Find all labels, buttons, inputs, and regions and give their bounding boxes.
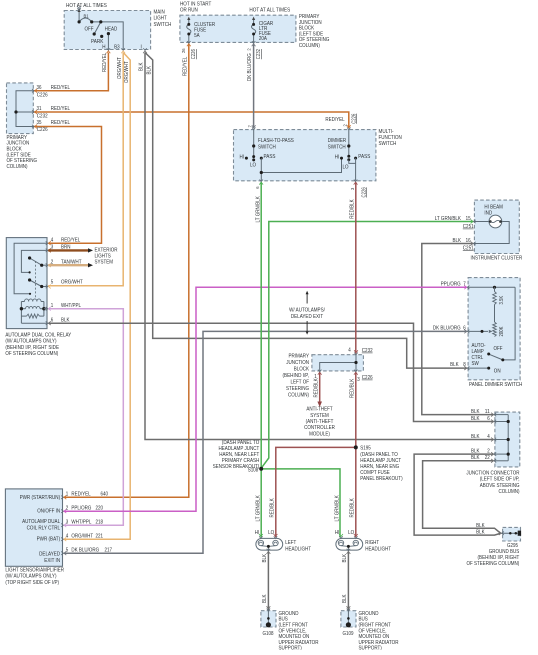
- svg-text:LIGHT SENSOR/AMPLIFIER: LIGHT SENSOR/AMPLIFIER: [5, 567, 64, 573]
- svg-text:WHT/PPL: WHT/PPL: [61, 303, 81, 309]
- svg-text:ORG/WHT: ORG/WHT: [71, 533, 93, 539]
- svg-text:7: 7: [248, 125, 254, 128]
- svg-text:SUPPORT): SUPPORT): [279, 646, 302, 650]
- svg-text:BLK: BLK: [476, 523, 485, 529]
- svg-text:ON/OFF IN: ON/OFF IN: [37, 509, 60, 515]
- svg-text:15: 15: [466, 216, 471, 222]
- svg-text:CONTROLLER: CONTROLLER: [304, 425, 335, 431]
- svg-text:C226: C226: [37, 92, 48, 98]
- svg-text:DK BLU/ORG: DK BLU/ORG: [71, 547, 99, 553]
- svg-text:RED/YEL: RED/YEL: [182, 57, 188, 76]
- svg-text:C226: C226: [37, 127, 48, 133]
- svg-text:PWR (START/RUN): PWR (START/RUN): [20, 495, 61, 501]
- svg-text:AUTOLAMP DUAL COIL RELAY: AUTOLAMP DUAL COIL RELAY: [5, 332, 71, 338]
- svg-text:OFF: OFF: [85, 27, 95, 33]
- svg-text:(DASH PANEL TO: (DASH PANEL TO: [360, 452, 398, 458]
- svg-text:DK BLU/ORG: DK BLU/ORG: [433, 326, 461, 332]
- svg-text:H: H: [102, 45, 105, 51]
- svg-text:ORG/WHT: ORG/WHT: [117, 57, 123, 79]
- svg-text:COLUMN): COLUMN): [299, 43, 320, 49]
- svg-text:HARN, NEAR LEFT: HARN, NEAR LEFT: [219, 452, 260, 458]
- svg-text:BLK: BLK: [471, 448, 480, 454]
- svg-text:RED/YEL: RED/YEL: [325, 117, 344, 123]
- svg-text:G108: G108: [263, 631, 274, 637]
- svg-text:BLK: BLK: [476, 530, 485, 536]
- svg-text:BLK: BLK: [342, 594, 348, 603]
- svg-text:BLK: BLK: [262, 554, 268, 563]
- svg-text:26: 26: [181, 48, 187, 53]
- svg-text:FLASH-TO-PASS: FLASH-TO-PASS: [258, 138, 294, 144]
- svg-text:(TOP RIGHT SIDE OF I/P): (TOP RIGHT SIDE OF I/P): [5, 580, 59, 586]
- svg-text:LEFT: LEFT: [285, 540, 297, 546]
- svg-text:220: 220: [96, 505, 104, 511]
- svg-text:EXTERIOR: EXTERIOR: [95, 247, 118, 253]
- svg-text:6: 6: [255, 186, 261, 189]
- svg-text:PASS: PASS: [358, 154, 370, 160]
- svg-text:4: 4: [66, 533, 69, 539]
- svg-text:B3: B3: [114, 45, 120, 51]
- svg-text:ORG/WHT: ORG/WHT: [124, 61, 130, 83]
- svg-text:RED/BLK: RED/BLK: [350, 498, 356, 518]
- svg-text:W/ AUTOLAMPS/: W/ AUTOLAMPS/: [289, 308, 325, 314]
- svg-text:RED/YEL: RED/YEL: [51, 120, 70, 126]
- svg-text:COLUMN): COLUMN): [499, 489, 520, 495]
- svg-text:PRIMARY CRASH: PRIMARY CRASH: [222, 458, 260, 464]
- svg-text:INSTRUMENT CLUSTER: INSTRUMENT CLUSTER: [471, 256, 523, 262]
- svg-text:STEERING: STEERING: [286, 386, 309, 392]
- svg-text:AUTOLAMP DUAL: AUTOLAMP DUAL: [22, 519, 60, 525]
- svg-text:I: I: [141, 45, 142, 51]
- svg-text:(W/ AUTOLAMPS ONLY): (W/ AUTOLAMPS ONLY): [5, 574, 56, 580]
- svg-text:HI BEAM: HI BEAM: [484, 204, 503, 210]
- svg-text:HARN, NEAR ENG: HARN, NEAR ENG: [360, 464, 399, 470]
- svg-text:FUNCTION: FUNCTION: [379, 135, 402, 141]
- svg-text:JUNCTION: JUNCTION: [286, 360, 309, 366]
- svg-text:DK BLU/ORG: DK BLU/ORG: [247, 53, 253, 81]
- svg-text:5: 5: [66, 547, 69, 553]
- svg-text:RED/YEL: RED/YEL: [102, 53, 108, 72]
- svg-text:PASS: PASS: [264, 154, 276, 160]
- svg-text:PRIMARY: PRIMARY: [289, 353, 310, 359]
- svg-text:PANEL DIMMER SWITCH: PANEL DIMMER SWITCH: [469, 382, 522, 388]
- svg-text:B1: B1: [84, 13, 89, 19]
- svg-text:MULTI-: MULTI-: [379, 129, 394, 135]
- svg-text:OFF: OFF: [494, 346, 504, 352]
- svg-text:G109: G109: [343, 631, 354, 637]
- svg-text:BLOCK: BLOCK: [294, 366, 310, 372]
- svg-text:LEFT OF: LEFT OF: [291, 379, 310, 385]
- svg-text:RED/YEL: RED/YEL: [51, 85, 70, 91]
- svg-text:36: 36: [37, 85, 42, 91]
- svg-text:TAN/WHT: TAN/WHT: [61, 259, 82, 265]
- svg-text:BLK: BLK: [471, 434, 480, 440]
- svg-text:S195: S195: [360, 445, 371, 451]
- svg-text:ORG/WHT: ORG/WHT: [61, 279, 83, 285]
- svg-text:LIGHT: LIGHT: [154, 16, 168, 22]
- svg-text:1: 1: [66, 491, 69, 497]
- svg-text:S108: S108: [248, 468, 259, 474]
- svg-text:BLK: BLK: [450, 362, 459, 368]
- svg-text:OR RUN: OR RUN: [180, 8, 198, 14]
- svg-text:6: 6: [463, 326, 466, 332]
- svg-text:5: 5: [51, 279, 54, 285]
- svg-text:BLK: BLK: [471, 409, 480, 415]
- svg-text:SWITCH: SWITCH: [258, 144, 276, 150]
- svg-text:3.5K: 3.5K: [499, 295, 505, 304]
- svg-text:HI: HI: [255, 530, 260, 536]
- svg-text:RED/BLK: RED/BLK: [314, 378, 320, 398]
- svg-text:ANTI-THEFT: ANTI-THEFT: [306, 407, 333, 413]
- svg-text:640: 640: [101, 491, 109, 497]
- svg-text:(W/ AUTOLAMPS ONLY): (W/ AUTOLAMPS ONLY): [5, 339, 56, 345]
- svg-text:BLK: BLK: [342, 554, 348, 563]
- svg-text:BLK: BLK: [146, 66, 152, 75]
- svg-text:7: 7: [463, 281, 466, 287]
- svg-text:(BEHIND I/P, RIGHT: (BEHIND I/P, RIGHT: [478, 555, 520, 561]
- svg-text:HOT IN START: HOT IN START: [180, 1, 212, 7]
- svg-text:RED/YEL: RED/YEL: [51, 106, 70, 112]
- svg-text:LT GRN/BLK: LT GRN/BLK: [435, 216, 462, 222]
- svg-text:SYSTEM: SYSTEM: [95, 260, 114, 266]
- svg-text:HEADLAMP JUNCT: HEADLAMP JUNCT: [360, 458, 401, 464]
- svg-text:31: 31: [37, 106, 42, 112]
- svg-text:PPL/ORG: PPL/ORG: [71, 505, 91, 511]
- svg-text:3: 3: [66, 519, 69, 525]
- svg-text:4: 4: [487, 434, 490, 440]
- svg-text:GROUND BUS: GROUND BUS: [489, 549, 520, 555]
- svg-text:ABOVE STEERING: ABOVE STEERING: [480, 483, 520, 489]
- svg-text:SWITCH: SWITCH: [154, 22, 172, 28]
- svg-text:COMPT FUSE: COMPT FUSE: [360, 470, 390, 476]
- svg-text:HEADLIGHT: HEADLIGHT: [365, 547, 391, 553]
- svg-text:2: 2: [487, 448, 490, 454]
- svg-text:221: 221: [96, 533, 104, 539]
- svg-text:16: 16: [466, 238, 471, 244]
- svg-text:8: 8: [463, 362, 466, 368]
- svg-text:MODULE): MODULE): [309, 431, 330, 437]
- svg-text:IND: IND: [484, 211, 492, 217]
- svg-text:6: 6: [51, 317, 54, 323]
- svg-text:3: 3: [350, 187, 356, 190]
- svg-text:22: 22: [485, 455, 490, 461]
- svg-text:HEADLIGHT: HEADLIGHT: [285, 547, 311, 553]
- svg-text:DELAYED: DELAYED: [39, 551, 60, 557]
- svg-text:RED/BLK: RED/BLK: [350, 378, 356, 398]
- svg-text:2: 2: [246, 48, 252, 51]
- svg-text:RED/YEL: RED/YEL: [71, 491, 90, 497]
- svg-text:DIMMER: DIMMER: [328, 138, 346, 144]
- svg-text:LT GRN/BLK: LT GRN/BLK: [335, 495, 341, 522]
- svg-text:HI: HI: [335, 530, 340, 536]
- svg-text:LIGHTS: LIGHTS: [95, 254, 112, 260]
- svg-text:BLK: BLK: [453, 238, 462, 244]
- svg-text:OF STEERING COLUMN): OF STEERING COLUMN): [5, 351, 58, 357]
- svg-text:BLK: BLK: [61, 317, 70, 323]
- svg-text:4: 4: [348, 348, 351, 354]
- svg-text:LO: LO: [343, 165, 349, 171]
- svg-text:EXIT IN: EXIT IN: [44, 558, 60, 564]
- svg-text:11: 11: [485, 409, 490, 415]
- svg-text:C232: C232: [37, 114, 48, 120]
- svg-text:COLUMN): COLUMN): [7, 164, 28, 170]
- svg-text:SWITCH: SWITCH: [379, 141, 397, 147]
- svg-text:5A: 5A: [194, 33, 200, 39]
- svg-text:20A: 20A: [259, 36, 267, 42]
- svg-text:200K: 200K: [499, 326, 505, 336]
- svg-text:HI: HI: [240, 154, 245, 160]
- svg-text:RED/BLK: RED/BLK: [349, 199, 355, 219]
- svg-text:LT GRN/BLK: LT GRN/BLK: [256, 196, 262, 223]
- svg-text:ON: ON: [494, 368, 501, 374]
- svg-text:(BEHIND I/P,: (BEHIND I/P,: [283, 373, 310, 379]
- svg-text:1: 1: [51, 303, 54, 309]
- svg-text:SYSTEM: SYSTEM: [310, 413, 329, 419]
- svg-text:MAIN: MAIN: [154, 10, 165, 16]
- svg-text:COLUMN): COLUMN): [288, 392, 309, 398]
- svg-text:RED/BLK: RED/BLK: [270, 498, 276, 518]
- svg-text:3: 3: [51, 245, 54, 251]
- svg-text:BLK: BLK: [471, 416, 480, 422]
- svg-text:(LEFT SIDE OF I/P,: (LEFT SIDE OF I/P,: [480, 477, 520, 483]
- svg-text:WHT/PPL: WHT/PPL: [71, 519, 91, 525]
- svg-text:PPL/ORG: PPL/ORG: [441, 281, 461, 287]
- svg-text:2: 2: [51, 259, 54, 265]
- svg-text:BLK: BLK: [471, 455, 480, 461]
- svg-text:HEADLAMP JUNCT: HEADLAMP JUNCT: [219, 446, 260, 452]
- svg-text:3: 3: [357, 377, 360, 383]
- svg-text:(ANTI-THEFT: (ANTI-THEFT: [306, 419, 334, 425]
- svg-text:2: 2: [66, 505, 69, 511]
- svg-text:RED/YEL: RED/YEL: [61, 237, 80, 243]
- svg-text:BRN: BRN: [61, 245, 71, 251]
- svg-text:LT GRN/BLK: LT GRN/BLK: [256, 495, 262, 522]
- svg-text:COIL RLY CTRL: COIL RLY CTRL: [27, 525, 61, 531]
- svg-text:218: 218: [96, 519, 104, 525]
- svg-text:PWR (BAT): PWR (BAT): [37, 537, 61, 543]
- svg-text:BLK: BLK: [262, 594, 268, 603]
- svg-text:SWITCH: SWITCH: [328, 144, 346, 150]
- svg-text:(DASH PANEL TO: (DASH PANEL TO: [222, 440, 260, 446]
- svg-text:35: 35: [37, 120, 42, 126]
- svg-text:6: 6: [487, 416, 490, 422]
- svg-text:HOT AT ALL TIMES: HOT AT ALL TIMES: [66, 3, 107, 9]
- svg-text:HI: HI: [335, 154, 340, 160]
- svg-text:SW: SW: [472, 361, 479, 367]
- svg-text:JUNCTION CONNECTOR: JUNCTION CONNECTOR: [466, 470, 519, 476]
- svg-text:(BEHIND I/P, RIGHT SIDE: (BEHIND I/P, RIGHT SIDE: [5, 345, 59, 351]
- svg-text:HOT AT ALL TIMES: HOT AT ALL TIMES: [249, 8, 290, 14]
- svg-text:HEAD: HEAD: [105, 27, 118, 33]
- svg-text:LO: LO: [348, 530, 354, 536]
- svg-text:DELAYED EXIT: DELAYED EXIT: [291, 314, 324, 320]
- svg-text:217: 217: [105, 547, 113, 553]
- svg-text:LO: LO: [250, 163, 256, 169]
- svg-text:PANEL BREAKOUT): PANEL BREAKOUT): [360, 476, 403, 482]
- svg-text:BLK: BLK: [139, 62, 145, 71]
- svg-text:SUPPORT): SUPPORT): [359, 646, 382, 650]
- svg-text:LO: LO: [268, 530, 274, 536]
- svg-text:4: 4: [51, 237, 54, 243]
- svg-text:OF STEERING COLUMN): OF STEERING COLUMN): [467, 561, 520, 567]
- svg-text:2: 2: [342, 124, 348, 127]
- svg-text:RIGHT: RIGHT: [365, 540, 380, 546]
